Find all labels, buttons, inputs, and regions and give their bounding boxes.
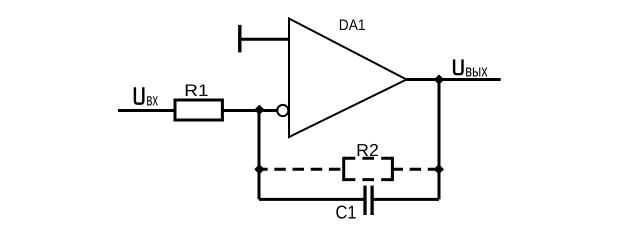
wire input Uvx to R1 [118, 109, 175, 112]
node label U_vyx (output net) [454, 59, 488, 80]
inversion bubble (inverting input of DA1) [277, 105, 288, 116]
wire left vertical (node A down to bottom rail) [258, 111, 261, 200]
non-inverting input terminal bar [238, 25, 241, 53]
node label U_vx (input net) [135, 87, 158, 109]
junction node C (left, feedback tap) [255, 165, 264, 174]
capacitor C1 left plate [363, 186, 366, 215]
wire terminal to non-inverting input [240, 38, 289, 41]
resistor R1 [175, 100, 222, 120]
wire bottom rail right segment [372, 198, 439, 201]
wire R1 to inverting-input node [222, 109, 259, 112]
wire node A to inversion bubble [259, 109, 277, 112]
wire bottom rail left segment [259, 198, 365, 201]
svg-text:вх: вх [146, 90, 158, 110]
junction node B (output) [435, 75, 444, 84]
capacitor C1 right plate [370, 186, 373, 215]
dashed wire node C to R2 [259, 168, 344, 171]
svg-text:вых: вых [465, 61, 488, 80]
junction node A (inverting input) [255, 106, 264, 115]
svg-text:R2: R2 [356, 140, 379, 160]
svg-text:DA1: DA1 [339, 17, 366, 34]
resistor R2 (dashed outline) [344, 158, 393, 179]
junction node D (right, feedback tap) [435, 165, 444, 174]
svg-text:R1: R1 [184, 81, 208, 100]
wire output of DA1 [407, 78, 501, 81]
op-amp DA1 triangle [289, 19, 407, 138]
dashed wire R2 to node D [392, 168, 439, 171]
wire right vertical (output down to bottom rail) [438, 80, 441, 200]
svg-text:C1: C1 [336, 202, 357, 223]
